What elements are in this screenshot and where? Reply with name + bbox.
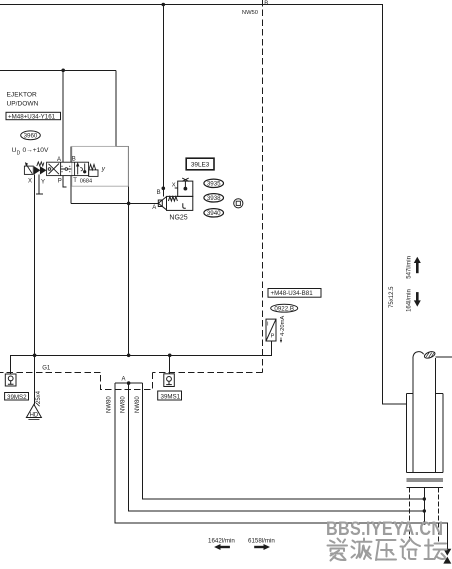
- wire branch to NG25 port B: [162, 5, 164, 197]
- node cylinder port junction 2: [423, 509, 426, 512]
- wire center pipe: [129, 383, 425, 511]
- char ye: [352, 539, 372, 560]
- label ellipse 3940: [204, 209, 224, 218]
- X pilot tick: [175, 187, 178, 189]
- label box +M48+U34-Y161: [6, 112, 61, 120]
- node top junction: [162, 3, 166, 7]
- node main branch bottom junction: [127, 354, 131, 358]
- plug symbol circle-square: [234, 199, 243, 208]
- svg-text:39LE3: 39LE3: [191, 161, 210, 168]
- svg-text:Y: Y: [41, 179, 45, 185]
- svg-text:A: A: [122, 376, 126, 382]
- pilot box right: [89, 170, 98, 177]
- svg-text:164l/min: 164l/min: [407, 289, 413, 312]
- node 39MS1 junction: [168, 354, 172, 358]
- svg-text:A: A: [57, 157, 61, 163]
- pressure sensor B81: [266, 319, 282, 343]
- flow arrow left 1642l/min: [214, 544, 230, 550]
- wire cylinder bottom center line: [423, 488, 425, 523]
- svg-text:75x12.5: 75x12.5: [389, 286, 395, 308]
- node cylinder port junction 1: [423, 497, 426, 500]
- wire X pilot line down: [34, 175, 36, 405]
- svg-text:P: P: [58, 178, 62, 184]
- spring right W: [89, 164, 96, 170]
- sensor output arrow: [280, 338, 282, 341]
- svg-text:39MS2: 39MS2: [7, 394, 27, 401]
- svg-text:NW80: NW80: [121, 396, 127, 413]
- wire Y drain stub with end bar: [36, 175, 43, 195]
- watermark chinese characters: [328, 539, 447, 561]
- svg-text:NW80: NW80: [107, 396, 113, 413]
- orifice bowtie: [182, 178, 189, 181]
- cell2 center symbols: [61, 168, 72, 170]
- svg-text:+M48+U34-Y161: +M48+U34-Y161: [8, 113, 56, 120]
- flow arrow right 6158l/min: [254, 544, 270, 550]
- wire left top pipe: [0, 69, 116, 71]
- char lun: [401, 539, 421, 560]
- subplate box (gray): [72, 146, 129, 186]
- svg-text:I: I: [267, 321, 269, 327]
- wire cylinder top link: [435, 356, 452, 358]
- svg-text:B: B: [157, 190, 161, 196]
- valve Y161 proportional 4/3 valve: [24, 162, 98, 177]
- label ellipse 0922.B: [271, 304, 298, 312]
- node bundle top junction: [127, 381, 131, 385]
- J drain hook: [183, 203, 186, 208]
- svg-text:D: D: [17, 151, 21, 157]
- svg-text:4-20mA: 4-20mA: [280, 316, 286, 336]
- flow arrow up 547l/min: [414, 257, 421, 273]
- test coupling symbol bottom right: [443, 549, 451, 564]
- NG25 cartridge valve: [158, 178, 193, 210]
- svg-text:X: X: [172, 183, 176, 189]
- svg-text:0684: 0684: [80, 179, 92, 185]
- char ya: [376, 540, 396, 560]
- node X line bottom junction: [33, 354, 37, 358]
- svg-text:NW80: NW80: [135, 396, 141, 413]
- svg-text:0→+10V: 0→+10V: [23, 147, 49, 154]
- svg-text:BBS.IYEYA.CN: BBS.IYEYA.CN: [326, 518, 443, 540]
- measuring point 39MS1: [158, 374, 182, 400]
- spring: [168, 197, 177, 201]
- wire 39MS1 drop: [169, 355, 171, 374]
- node NG25 B junction: [162, 187, 166, 191]
- svg-text:y: y: [101, 165, 106, 172]
- pilot arrow with dot: [184, 181, 186, 188]
- HD connection triangle: [26, 403, 41, 419]
- svg-text:3960: 3960: [24, 133, 38, 140]
- wire drop to valve port A: [62, 70, 64, 162]
- svg-text:EJEKTOR: EJEKTOR: [7, 91, 38, 98]
- spring left top: [37, 162, 44, 166]
- node left pipe junction: [61, 69, 65, 73]
- svg-text:25x4: 25x4: [36, 390, 42, 404]
- svg-text:+M48-U34-B81: +M48-U34-B81: [271, 290, 314, 297]
- label box 39LE3: [186, 158, 214, 170]
- svg-text:1642l/min: 1642l/min: [208, 537, 235, 544]
- measuring point 39MS2: [5, 374, 29, 400]
- svg-text:3938: 3938: [207, 195, 221, 202]
- wire cylinder dashed drain left: [408, 488, 410, 542]
- label box +M48-U34-B81: [268, 289, 321, 298]
- svg-text:A: A: [152, 205, 156, 211]
- label ellipse 3960: [21, 131, 41, 140]
- wire dashed measuring line B/G1: [0, 0, 262, 390]
- wire valve T to NG25 port A run: [71, 176, 159, 204]
- wire valve port P stub: [63, 176, 67, 188]
- label UD 0-10V: [12, 147, 49, 157]
- svg-text:0922.B: 0922.B: [274, 306, 294, 313]
- svg-text:547l/min: 547l/min: [407, 256, 413, 279]
- svg-text:NW50: NW50: [242, 10, 258, 16]
- svg-text:X: X: [28, 179, 32, 185]
- node cylinder port junction 3: [423, 521, 426, 524]
- cylinder: [407, 358, 443, 488]
- wire jog down to main A junction: [116, 70, 129, 355]
- svg-text:G1: G1: [42, 366, 51, 372]
- label ellipse 3935: [204, 179, 224, 188]
- svg-text:3935: 3935: [207, 181, 221, 188]
- svg-text:NG25: NG25: [169, 214, 187, 221]
- wire top main pipe B-line: [0, 5, 407, 404]
- cylinder rod eye dome: [413, 350, 436, 359]
- svg-text:6158l/min: 6158l/min: [248, 537, 275, 544]
- wire inner pipe: [143, 383, 425, 499]
- label ellipse 3938: [204, 194, 224, 203]
- svg-text:3940: 3940: [207, 210, 221, 217]
- char ai: [328, 539, 348, 561]
- char tan: [425, 540, 447, 560]
- cell1 crossed arrows: [49, 164, 60, 175]
- svg-text:UP/DOWN: UP/DOWN: [7, 101, 39, 108]
- svg-text:B: B: [264, 1, 268, 7]
- wire cylinder dashed drain right: [437, 488, 439, 542]
- cell3 parallel arrows: [78, 164, 85, 175]
- poppet cone: [158, 197, 166, 210]
- svg-text:P: P: [271, 334, 275, 340]
- node A-run junction: [127, 202, 131, 206]
- solenoid left with arrow: [24, 166, 33, 174]
- wire pipe bundle top bar: [115, 382, 143, 384]
- flow arrow down 164l/min: [414, 292, 421, 307]
- pilot triangles: [34, 167, 39, 174]
- wire outer pipe to coupling: [115, 383, 448, 549]
- wire valve port B stub: [70, 146, 72, 162]
- wire bottom main pipe: [11, 341, 272, 374]
- svg-text:B: B: [72, 157, 76, 163]
- svg-text:39MS1: 39MS1: [161, 393, 181, 400]
- svg-text:T: T: [73, 178, 77, 184]
- svg-text:HD: HD: [30, 412, 39, 418]
